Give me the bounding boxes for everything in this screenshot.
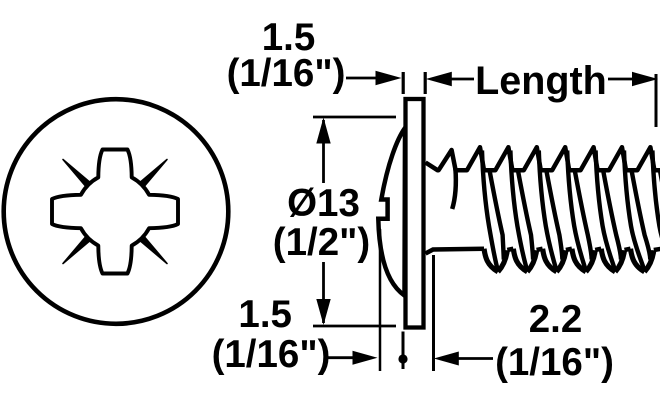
- thread 1 bottom crest right edge: [498, 250, 507, 271]
- arrowhead Length pointing left: [426, 72, 452, 86]
- dia13 vertical dimension line lower part: [322, 262, 325, 323]
- flange rect: [406, 99, 424, 328]
- extension line right end of screw: [655, 74, 658, 127]
- arrowhead dia13 pointing down: [316, 299, 330, 325]
- thread 2 helix line A: [510, 151, 527, 271]
- svg-text:Length: Length: [475, 59, 607, 103]
- bottom extension line at dome face: [379, 229, 382, 371]
- head front view outer circle: [4, 99, 229, 324]
- dimension line Length right: [608, 78, 633, 81]
- bottom valley segment 1: [507, 249, 513, 250]
- thread 7 helix line A: [652, 151, 660, 271]
- thread 6 helix line B: [632, 170, 651, 259]
- thread core bottom line: [426, 249, 485, 254]
- spike upper-left: [63, 160, 91, 188]
- thread 6 helix line A: [624, 151, 645, 271]
- spike lower-right: [139, 236, 167, 264]
- extension tick above flange right face: [424, 72, 427, 94]
- arrowhead 1.5 top pointing right: [376, 71, 402, 85]
- extension tick above flange left face: [402, 72, 405, 94]
- center dot under flange: [398, 354, 407, 363]
- thread 4 bottom crest right edge: [586, 250, 595, 271]
- dia13 top extension line: [313, 116, 396, 119]
- thread 1 helix line A: [482, 151, 498, 271]
- thread 4 helix line B: [575, 170, 592, 259]
- thread runout line near flange: [452, 169, 456, 210]
- dome head side profile with notch: [378, 128, 405, 296]
- thread 4 helix line A: [567, 151, 586, 271]
- svg-text:(1/16"): (1/16"): [495, 341, 614, 384]
- dimension line 1.5 bottom: [328, 356, 353, 359]
- thread 1 helix line B: [490, 170, 504, 259]
- thread 3 helix line B: [546, 170, 562, 259]
- arrowhead dia13 pointing up: [316, 118, 330, 144]
- svg-text:Ø13: Ø13: [287, 182, 360, 225]
- thread 6 bottom crest left edge: [631, 249, 645, 272]
- svg-text:(1/16"): (1/16"): [212, 333, 331, 376]
- arrowhead 1.5 bottom pointing right: [353, 351, 378, 365]
- thread 5 bottom crest right edge: [615, 250, 624, 271]
- dimension line 2.2 bottom: [457, 357, 493, 360]
- thread top profile zigzag: [426, 147, 660, 170]
- svg-text:(1/16"): (1/16"): [227, 52, 346, 95]
- thread 6 bottom crest right edge: [645, 250, 654, 271]
- bottom center line at flange left face: [402, 332, 405, 370]
- dimension line 1.5 top: [346, 77, 377, 80]
- dia13 bottom extension line: [313, 325, 396, 328]
- thread 3 bottom crest right edge: [557, 250, 566, 271]
- thread 3 helix line A: [539, 151, 557, 271]
- dimension line Length left: [450, 78, 474, 81]
- dia13 vertical dimension line upper part: [322, 120, 325, 183]
- thread 3 bottom crest left edge: [543, 249, 557, 272]
- arrowhead Length pointing right: [632, 72, 658, 86]
- svg-text:2.2: 2.2: [529, 298, 583, 341]
- thread 5 bottom crest left edge: [601, 249, 615, 272]
- bottom valley segment 3: [566, 249, 572, 250]
- bottom valley segment 6: [654, 249, 660, 250]
- svg-text:1.5: 1.5: [238, 293, 292, 336]
- thread 4 bottom crest left edge: [572, 249, 586, 272]
- thread 1 bottom crest left edge: [484, 249, 498, 272]
- spike lower-left: [63, 236, 91, 264]
- bottom valley segment 2: [537, 249, 543, 250]
- thread 5 helix line B: [603, 170, 621, 259]
- bottom valley segment 4: [595, 249, 601, 250]
- pozidriv cross recess outline: [52, 150, 178, 274]
- spike upper-right: [139, 160, 167, 188]
- bottom valley segment 5: [625, 249, 631, 250]
- thread 5 helix line A: [596, 151, 616, 271]
- svg-text:(1/2"): (1/2"): [273, 221, 370, 264]
- thread 2 bottom crest right edge: [527, 250, 536, 271]
- bottom extension line at thread start: [432, 255, 435, 371]
- arrowhead 2.2 bottom pointing left: [434, 352, 459, 366]
- thread 2 bottom crest left edge: [513, 249, 527, 272]
- thread 2 helix line B: [518, 170, 533, 259]
